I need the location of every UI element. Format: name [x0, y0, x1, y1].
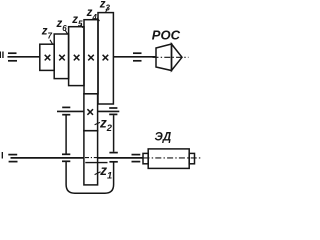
gear z7	[40, 44, 54, 70]
bearing caps right arm on shaft I	[109, 153, 117, 162]
fixed joint x on z7	[45, 55, 51, 61]
axis line through gear z1	[85, 157, 97, 159]
gear z5	[69, 27, 84, 86]
bearing caps left arm on shaft I	[62, 154, 70, 161]
bearing right of shaft I before motor	[132, 155, 141, 162]
POC cone	[172, 44, 183, 71]
leader z4	[97, 18, 100, 21]
electric motor ЭД right stub	[189, 153, 194, 163]
svg-text:z2: z2	[99, 115, 113, 133]
frame hub line	[85, 162, 107, 164]
swing frame U yoke	[66, 162, 114, 193]
leader z3	[106, 8, 108, 13]
svg-text:z1: z1	[99, 163, 112, 181]
gear z4	[84, 20, 98, 94]
gear z2	[84, 94, 98, 131]
svg-text:POC: POC	[152, 28, 181, 43]
swing frame right arm	[113, 115, 115, 152]
leader z1	[95, 172, 101, 175]
gear z1	[84, 131, 98, 185]
wire shaft I right segment	[98, 157, 144, 159]
svg-text:z3: z3	[99, 0, 111, 13]
leader z5	[80, 25, 83, 28]
svg-text:II: II	[0, 50, 4, 61]
svg-text:z7: z7	[41, 26, 53, 41]
tachogenerator POC body	[156, 44, 172, 71]
leader z7	[50, 40, 53, 44]
axis line of POC	[153, 56, 189, 58]
leader z6	[65, 31, 67, 34]
swing frame left arm	[65, 115, 67, 153]
bearing right of shaft II	[133, 53, 142, 61]
axis line of motor	[144, 157, 202, 159]
fixed joint x on z6	[59, 55, 65, 61]
fixed joint x on z5	[74, 55, 80, 61]
fixed joint x on z2	[87, 109, 93, 115]
wire shaft III left stub	[57, 110, 84, 112]
electric motor ЭД left stub	[143, 153, 148, 163]
fixed joint x on z4	[88, 55, 94, 61]
svg-text:ЭД: ЭД	[155, 131, 172, 143]
electric motor ЭД body	[148, 149, 189, 169]
gear z3	[98, 13, 113, 104]
gear z6	[54, 34, 68, 79]
bearing left on shaft III	[62, 107, 70, 114]
wire shaft III right stub	[98, 110, 120, 112]
bearing right on shaft III	[109, 108, 117, 114]
leader z2	[95, 122, 100, 124]
wire shaft II left segment	[8, 56, 40, 58]
fixed joint x on z3	[103, 55, 109, 61]
bearing left of shaft I	[8, 155, 17, 162]
wire shaft I left segment	[11, 157, 84, 159]
svg-text:I: I	[1, 150, 4, 161]
wire shaft II right segment	[113, 56, 156, 58]
bearing left of shaft II	[8, 53, 17, 61]
